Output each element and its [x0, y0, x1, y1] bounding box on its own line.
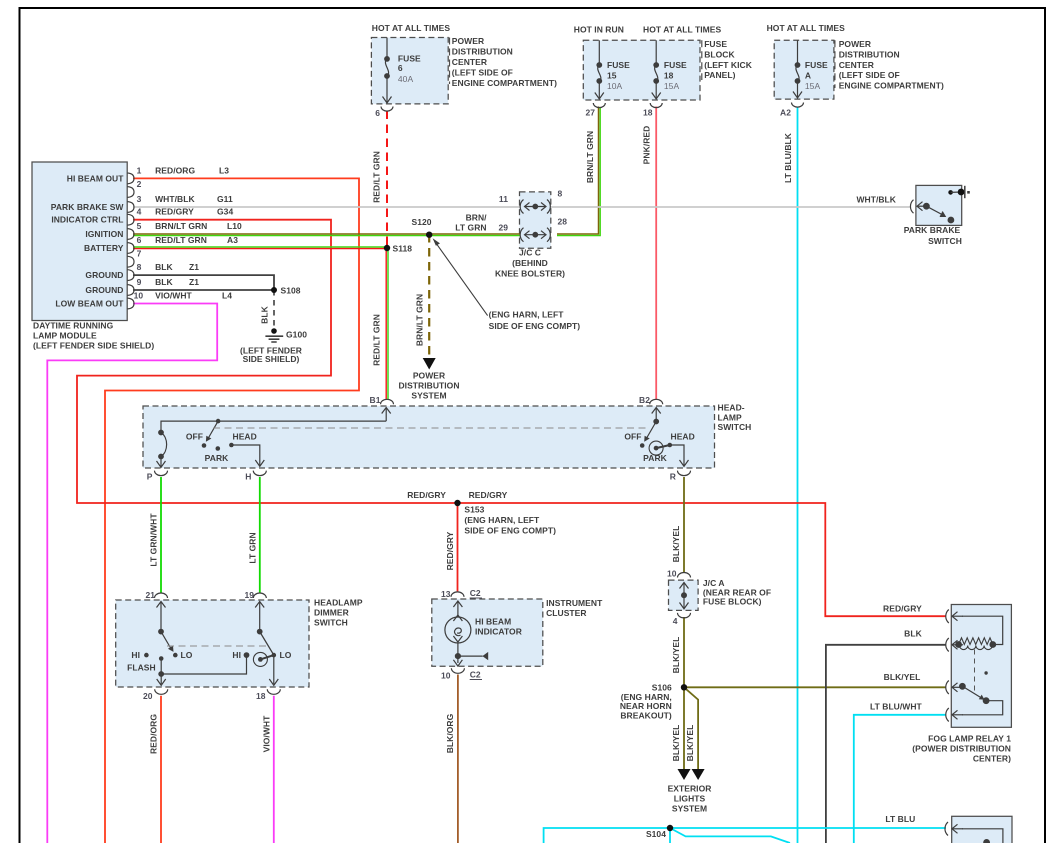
dimmer switch right lever to LO	[260, 632, 274, 656]
svg-text:6: 6	[375, 108, 380, 118]
svg-text:FUSE: FUSE	[664, 60, 687, 70]
svg-text:1: 1	[137, 165, 142, 175]
wire BLK from DRL pin 9 to S108	[133, 289, 274, 291]
svg-text:BREAKOUT): BREAKOUT)	[620, 710, 672, 720]
svg-text:ENGINE COMPARTMENT): ENGINE COMPARTMENT)	[452, 78, 557, 88]
svg-text:A3: A3	[227, 235, 238, 245]
fuse F15 element	[595, 40, 604, 99]
DRL module pin 1 connector	[128, 173, 135, 184]
headlamp dimmer switch box	[116, 600, 309, 687]
svg-text:5: 5	[137, 221, 142, 231]
svg-text:RED/LT GRN: RED/LT GRN	[372, 314, 382, 366]
dimmer switch left lever with arrowhead toward LO	[161, 632, 174, 652]
headlamp switch left pole lever with arrowhead toward OFF	[206, 421, 218, 442]
svg-text:RED/ORG: RED/ORG	[155, 165, 195, 175]
wire VIO/WHT from DRL pin 10: right, down, left, down to page bottom	[47, 304, 217, 843]
node S106	[681, 684, 687, 690]
instrument cluster connector 10	[451, 668, 464, 673]
svg-text:PARK BRAKE SW: PARK BRAKE SW	[51, 202, 125, 212]
headlamp switch left breaker arc to P	[157, 430, 167, 467]
arrow exterior lights (left)	[678, 769, 691, 780]
svg-text:7: 7	[137, 249, 142, 259]
svg-text:LT BLU: LT BLU	[885, 814, 915, 824]
svg-text:SYSTEM: SYSTEM	[411, 390, 446, 400]
svg-text:HI: HI	[131, 650, 140, 660]
svg-text:DIMMER: DIMMER	[314, 607, 349, 617]
headlamp switch connector H	[253, 471, 266, 476]
svg-text:CENTER: CENTER	[452, 57, 487, 67]
wire RED/GRY from DRL pin 4: right, down, left, down, right to S153 and on to fog lamp relay 1	[77, 220, 946, 617]
note separator fuse block	[701, 40, 703, 80]
svg-text:ENGINE COMPARTMENT): ENGINE COMPARTMENT)	[839, 81, 944, 91]
J/C A connector arc top	[678, 573, 691, 578]
note separator power distribution center (fuse A)	[834, 40, 836, 88]
svg-text:RED/GRY: RED/GRY	[155, 207, 194, 217]
fuse FA element	[793, 40, 802, 98]
park brake switch box	[916, 185, 962, 225]
svg-text:B2: B2	[639, 395, 650, 405]
park brake switch input arrow and contact	[917, 202, 929, 211]
svg-text:PNK/RED: PNK/RED	[642, 126, 652, 165]
callout arrow from ENG HARN note to S120	[435, 241, 488, 315]
fog lamp relay 2 internal wire and dot	[962, 829, 1003, 843]
svg-text:BLK/YEL: BLK/YEL	[671, 725, 681, 762]
wire LT BLU/WHT from fog lamp relay 1 left then down to page bottom	[854, 715, 946, 843]
dimmer switch connector 19	[253, 593, 266, 598]
svg-text:LT BLU/BLK: LT BLU/BLK	[783, 132, 793, 183]
svg-text:FUSE: FUSE	[398, 54, 421, 64]
svg-text:SWITCH: SWITCH	[928, 236, 962, 246]
svg-text:VIO/WHT: VIO/WHT	[155, 291, 192, 301]
svg-text:FUSE: FUSE	[805, 60, 828, 70]
svg-text:B1: B1	[370, 395, 381, 405]
DRL module pin 4 connector	[128, 214, 135, 225]
svg-text:L10: L10	[227, 221, 242, 231]
svg-text:LT GRN: LT GRN	[455, 222, 486, 232]
svg-text:FUSE: FUSE	[607, 60, 630, 70]
svg-text:CLUSTER: CLUSTER	[546, 608, 587, 618]
svg-text:FOG LAMP RELAY 1: FOG LAMP RELAY 1	[928, 734, 1011, 744]
park brake switch lever	[926, 206, 953, 223]
svg-text:RED/GRY: RED/GRY	[445, 531, 455, 570]
dimmer switch FLASH to pin 20 with junction to right HI	[157, 653, 249, 686]
svg-text:POWER: POWER	[413, 370, 445, 380]
wire LT BLU from page bottom up and right through S104 to fog lamp relay 2	[544, 828, 946, 843]
headlamp switch right contacts OFF / PARK(circled) / HEAD	[640, 443, 645, 448]
svg-text:A: A	[805, 71, 811, 81]
wire RED/LT GRN from DRL pin 6 to S118 (green+red)	[133, 246, 387, 248]
wire BRN/LT GRN from fuse 15 pin 27 down and left to J/C C pin 28 (brown+green)	[557, 107, 599, 235]
svg-text:28: 28	[558, 217, 568, 227]
wire LT GRN/WHT from headlamp switch pin P to dimmer switch pin 21	[160, 477, 162, 593]
svg-text:BRN/LT GRN: BRN/LT GRN	[414, 294, 424, 346]
svg-text:VIO/WHT: VIO/WHT	[261, 715, 271, 752]
svg-text:13: 13	[441, 589, 451, 599]
svg-text:RED/LT GRN: RED/LT GRN	[155, 235, 207, 245]
svg-text:RED/GRY: RED/GRY	[407, 490, 446, 500]
DRL module pin 7 connector	[128, 256, 135, 267]
svg-text:FLASH: FLASH	[127, 663, 156, 673]
svg-text:LT GRN: LT GRN	[247, 532, 257, 563]
node S104	[667, 825, 673, 831]
svg-text:POWER: POWER	[839, 39, 871, 49]
svg-text:6: 6	[398, 63, 403, 73]
power distribution center box (fuse A)	[774, 40, 834, 99]
svg-text:RED/GRY: RED/GRY	[469, 490, 508, 500]
svg-text:(LEFT SIDE OF: (LEFT SIDE OF	[452, 68, 513, 78]
svg-text:CENTER: CENTER	[839, 60, 874, 70]
svg-text:BRN/LT GRN: BRN/LT GRN	[585, 131, 595, 183]
svg-text:29: 29	[498, 222, 508, 232]
instrument cluster box	[432, 599, 543, 666]
J/C C junction connector box	[520, 192, 551, 248]
svg-text:LO: LO	[181, 650, 193, 660]
headlamp switch HEAD wire to R pin	[670, 445, 689, 466]
svg-text:BRN/: BRN/	[466, 213, 488, 223]
wire RED/LT GRN dashed from fuse 6 pin 6 to S118	[386, 111, 388, 249]
DRL module pin 3 connector	[128, 202, 135, 213]
fuse F18 output connector arc	[650, 103, 662, 108]
wire LT BLU/BLK from fuse A pin A2 down to page bottom	[797, 107, 799, 843]
DRL module pin 9 connector	[128, 285, 135, 296]
svg-text:LT GRN/WHT: LT GRN/WHT	[149, 513, 159, 567]
svg-text:J/C C: J/C C	[519, 248, 541, 258]
svg-text:2: 2	[137, 179, 142, 189]
DRL module pin 2 connector	[128, 187, 135, 198]
svg-text:HEADLAMP: HEADLAMP	[314, 597, 363, 607]
dimmer switch left contacts HI / LO / FLASH	[144, 653, 149, 658]
svg-text:Z1: Z1	[189, 262, 199, 272]
fuse FA output connector arc	[792, 103, 804, 108]
svg-text:INDICATOR CTRL: INDICATOR CTRL	[51, 215, 123, 225]
svg-text:BLK/YEL: BLK/YEL	[685, 725, 695, 762]
svg-text:HI BEAM OUT: HI BEAM OUT	[67, 173, 124, 183]
wire WHT/BLK from J/C C pin 8 to park brake switch	[551, 206, 910, 208]
headlamp switch left pole: B1 riser with up arrow	[382, 408, 391, 422]
svg-text:OFF: OFF	[624, 432, 641, 442]
J/C A internal double arrow with dot	[680, 583, 689, 609]
svg-text:SIDE OF ENG COMPT): SIDE OF ENG COMPT)	[489, 321, 581, 331]
DRL module pin 5 connector	[128, 229, 135, 240]
wire LT GRN from headlamp switch pin H to dimmer switch pin 19	[259, 477, 261, 593]
svg-text:RED/ORG: RED/ORG	[149, 714, 159, 754]
node S153	[454, 500, 460, 506]
svg-text:18: 18	[664, 71, 674, 81]
hi beam indicator lamp	[445, 617, 471, 643]
svg-text:S108: S108	[281, 286, 301, 296]
svg-text:BLK: BLK	[904, 629, 922, 639]
wire BLK/YEL from S106 right to fog lamp relay 1	[684, 686, 946, 688]
arrow to power distribution system	[423, 358, 436, 370]
wire BRN/LT GRN dashed from S120 down to power distribution system arrow	[428, 234, 430, 359]
svg-text:HI BEAM: HI BEAM	[475, 617, 511, 627]
svg-text:BLK/YEL: BLK/YEL	[884, 672, 921, 682]
svg-text:DISTRIBUTION: DISTRIBUTION	[452, 47, 513, 57]
headlamp switch mechanical link (dashed)	[213, 427, 649, 429]
svg-text:HEAD-: HEAD-	[718, 403, 745, 413]
wire RED/ORG from DRL pin 1: right, down, left, down to page bottom	[105, 178, 359, 843]
dimmer switch left pole riser and pivot	[157, 602, 166, 634]
svg-text:SWITCH: SWITCH	[718, 422, 752, 432]
note separator fuse 6	[449, 38, 451, 85]
svg-text:15: 15	[607, 71, 617, 81]
fog lamp relay 1 pin 3 connector (BLK/YEL)	[946, 681, 963, 695]
svg-text:(LEFT SIDE OF: (LEFT SIDE OF	[839, 70, 900, 80]
svg-text:S153: S153	[464, 505, 484, 515]
svg-text:(BEHIND: (BEHIND	[512, 258, 548, 268]
svg-text:9: 9	[137, 277, 142, 287]
fog lamp relay 2 box (clipped at page bottom)	[952, 816, 1012, 843]
headlamp switch connector P	[155, 471, 168, 476]
fuse block box (fuse 15 / fuse 18)	[583, 40, 700, 100]
svg-text:PARK: PARK	[643, 453, 667, 463]
daytime running lamp module box	[32, 162, 127, 321]
svg-text:A2: A2	[780, 108, 791, 118]
svg-text:WHT/BLK: WHT/BLK	[856, 195, 896, 205]
DRL module pin 6 connector	[128, 243, 135, 254]
svg-text:HOT IN RUN: HOT IN RUN	[574, 25, 624, 35]
svg-text:L4: L4	[222, 291, 232, 301]
headlamp switch left pole pivot dot	[216, 419, 221, 424]
node S108	[271, 287, 277, 293]
headlamp switch left pole rail from P branch to B1	[161, 421, 386, 432]
svg-text:HEAD: HEAD	[671, 432, 695, 442]
svg-text:PANEL): PANEL)	[704, 70, 735, 80]
ground G100	[265, 328, 283, 342]
svg-text:6: 6	[137, 235, 142, 245]
svg-text:Z1: Z1	[189, 277, 199, 287]
dimmer switch right LO down to pin 18	[269, 655, 278, 685]
wire VIO/WHT from dimmer pin 18 to page bottom	[273, 696, 275, 843]
fog lamp relay 1 pin 4 connector (LT BLU/WHT)	[946, 708, 963, 722]
svg-text:3: 3	[137, 194, 142, 204]
svg-text:GROUND: GROUND	[85, 270, 123, 280]
wire BLK/ORG from instrument cluster pin 10 to page bottom	[457, 675, 459, 843]
svg-text:PARK BRAKE: PARK BRAKE	[904, 225, 961, 235]
fog lamp relay 1 dashed actuator link	[974, 650, 976, 693]
svg-text:BLK: BLK	[260, 305, 270, 323]
J/C C row 1 connector (pins 11/8)	[520, 200, 550, 214]
svg-text:L3: L3	[219, 165, 229, 175]
svg-text:10: 10	[134, 291, 144, 301]
svg-text:BLK/YEL: BLK/YEL	[671, 526, 681, 563]
wire WHT/BLK from DRL pin 3 to J/C C pin 11	[133, 206, 520, 208]
svg-text:IGNITION: IGNITION	[85, 229, 123, 239]
instrument cluster connector 13	[451, 592, 464, 597]
svg-text:BLK: BLK	[155, 262, 173, 272]
headlamp switch connector R	[678, 471, 691, 476]
dimmer switch mechanical link (dashed)	[167, 645, 267, 647]
svg-text:FUSE BLOCK): FUSE BLOCK)	[703, 597, 762, 607]
DRL module pin 8 connector	[128, 270, 135, 281]
park brake switch connector arc	[910, 200, 913, 214]
svg-text:8: 8	[558, 189, 563, 199]
dimmer switch right pole riser and pivot	[255, 602, 264, 634]
fog lamp relay 1 pin 1 connector (RED/GRY)	[946, 610, 963, 624]
park brake switch ground contact	[948, 186, 970, 198]
svg-text:LO: LO	[280, 650, 292, 660]
svg-text:HOT AT ALL TIMES: HOT AT ALL TIMES	[643, 25, 722, 35]
arrow exterior lights (right)	[692, 769, 705, 780]
fog lamp relay 1 switch lever	[960, 684, 1003, 715]
svg-text:S118: S118	[393, 244, 413, 254]
fog lamp relay 1 coil circuit	[956, 616, 1003, 649]
svg-text:PARK: PARK	[205, 453, 229, 463]
svg-text:(POWER DISTRIBUTION: (POWER DISTRIBUTION	[912, 743, 1011, 753]
svg-text:10: 10	[441, 671, 451, 681]
svg-text:27: 27	[585, 108, 595, 118]
svg-text:HOT AT ALL TIMES: HOT AT ALL TIMES	[372, 23, 451, 33]
svg-text:SIDE OF ENG COMPT): SIDE OF ENG COMPT)	[464, 525, 556, 535]
svg-text:LT BLU/WHT: LT BLU/WHT	[870, 701, 923, 711]
fog lamp relay 2 pin connector (LT BLU)	[945, 822, 963, 836]
svg-text:DAYTIME RUNNING: DAYTIME RUNNING	[33, 321, 114, 331]
svg-text:(LEFT KICK: (LEFT KICK	[704, 60, 753, 70]
wire RED/LT GRN from S118 down to headlamp switch B1 (red+green)	[385, 248, 387, 400]
svg-text:P: P	[147, 472, 153, 482]
fog lamp relay 1 box	[951, 605, 1011, 728]
headlamp switch HEAD wire to H pin	[231, 445, 264, 466]
fuse F6 output connector arc	[381, 107, 393, 112]
wire BLK/YEL from headlamp switch pin R to J/C A pin 10	[683, 477, 685, 572]
power distribution center box (fuse 6)	[371, 38, 448, 104]
svg-text:INSTRUMENT: INSTRUMENT	[546, 598, 603, 608]
fog lamp relay 1 pin 2 connector (BLK)	[946, 638, 963, 652]
instrument cluster feed with up arrow	[453, 601, 462, 621]
headlamp switch left contacts OFF / PARK / HEAD	[202, 443, 207, 448]
svg-text:RED/GRY: RED/GRY	[883, 604, 922, 614]
wire BLK/YEL from J/C A pin 4 to S106	[683, 617, 685, 687]
svg-text:GROUND: GROUND	[85, 285, 123, 295]
svg-text:C2: C2	[470, 588, 481, 598]
J/C C row 2 connector (pins 29/28)	[520, 228, 550, 242]
svg-text:BLK/YEL: BLK/YEL	[671, 637, 681, 674]
svg-text:SWITCH: SWITCH	[314, 617, 348, 627]
svg-text:SYSTEM: SYSTEM	[672, 804, 707, 814]
svg-text:H: H	[245, 472, 251, 482]
svg-text:(ENG HARN, LEFT: (ENG HARN, LEFT	[489, 310, 565, 320]
svg-text:G34: G34	[217, 207, 233, 217]
svg-text:DISTRIBUTION: DISTRIBUTION	[839, 49, 900, 59]
node S118	[384, 245, 390, 251]
svg-text:HEAD: HEAD	[233, 432, 257, 442]
wire BLK from DRL pin 8: right then down to S108	[133, 275, 274, 290]
svg-text:15A: 15A	[805, 81, 821, 91]
svg-text:LAMP MODULE: LAMP MODULE	[33, 331, 97, 341]
svg-text:EXTERIOR: EXTERIOR	[668, 783, 712, 793]
headlamp switch right pole lever with arrowhead toward OFF	[644, 422, 656, 442]
svg-text:HI: HI	[232, 650, 241, 660]
svg-text:4: 4	[673, 616, 678, 626]
svg-text:(ENG HARN, LEFT: (ENG HARN, LEFT	[464, 515, 540, 525]
svg-text:18: 18	[643, 108, 653, 118]
svg-text:BLK/ORG: BLK/ORG	[445, 713, 455, 753]
svg-text:BRN/LT GRN: BRN/LT GRN	[155, 221, 207, 231]
svg-text:15A: 15A	[664, 81, 680, 91]
svg-text:RED/LT GRN: RED/LT GRN	[372, 151, 382, 203]
svg-text:G100: G100	[286, 330, 307, 340]
svg-text:20: 20	[143, 691, 153, 701]
svg-text:19: 19	[244, 590, 254, 600]
svg-text:C2: C2	[470, 670, 481, 680]
svg-text:18: 18	[256, 691, 266, 701]
wire BLK from fog lamp relay 1 left then down to page bottom	[826, 645, 946, 843]
svg-text:BLOCK: BLOCK	[704, 49, 735, 59]
svg-text:10A: 10A	[607, 81, 623, 91]
wire RED/GRY from S153 down to instrument cluster pin 13	[457, 503, 459, 591]
svg-text:LOW BEAM OUT: LOW BEAM OUT	[55, 299, 124, 309]
wire PNK/RED from fuse 18 pin 18 down to headlamp switch B2	[655, 107, 657, 401]
svg-text:8: 8	[137, 262, 142, 272]
wire BLK/YEL from S106 down to exterior lights system arrow	[683, 687, 685, 770]
svg-text:BLK: BLK	[155, 277, 173, 287]
fuse F15 output connector arc	[593, 103, 605, 108]
svg-text:S120: S120	[412, 217, 432, 227]
wire BLK dashed from S108 to ground G100	[273, 290, 275, 329]
svg-text:FUSE: FUSE	[704, 39, 727, 49]
wire BRN/LT GRN from DRL pin 5 through S120 to J/C C pin 29 (brown+green)	[133, 233, 520, 235]
svg-text:10: 10	[667, 569, 677, 579]
J/C A junction connector box	[669, 580, 699, 610]
svg-text:KNEE BOLSTER): KNEE BOLSTER)	[495, 269, 565, 279]
svg-text:4: 4	[137, 207, 142, 217]
dimmer switch connector 21	[155, 593, 168, 598]
svg-text:LIGHTS: LIGHTS	[674, 794, 706, 804]
DRL module pin 10 connector	[128, 298, 135, 309]
svg-text:CENTER): CENTER)	[973, 754, 1011, 764]
fuse F18 element	[652, 40, 661, 99]
headlamp switch box	[143, 406, 715, 468]
headlamp switch right wiper bar PARK to HEAD	[656, 445, 670, 448]
svg-text:HOT AT ALL TIMES: HOT AT ALL TIMES	[767, 23, 846, 33]
headlamp switch right pole: B2 riser with up arrow	[652, 408, 661, 424]
wire LT BLU stub below S104 to page bottom	[669, 828, 671, 843]
dimmer switch right contacts LO and circled wiper	[272, 653, 277, 658]
svg-text:11: 11	[499, 194, 508, 204]
svg-text:G11: G11	[217, 194, 233, 204]
headlamp switch connector B1	[381, 399, 394, 404]
dimmer switch connector 18	[267, 689, 280, 694]
svg-text:LAMP: LAMP	[718, 412, 743, 422]
svg-text:BATTERY: BATTERY	[84, 243, 124, 253]
svg-text:40A: 40A	[398, 74, 414, 84]
svg-text:POWER: POWER	[452, 36, 484, 46]
svg-text:WHT/BLK: WHT/BLK	[155, 194, 195, 204]
svg-text:(LEFT FENDER SIDE SHIELD): (LEFT FENDER SIDE SHIELD)	[33, 341, 154, 351]
svg-text:21: 21	[145, 590, 155, 600]
svg-text:DISTRIBUTION: DISTRIBUTION	[398, 380, 459, 390]
wire RED/ORG from dimmer pin 20 to page bottom	[160, 696, 162, 843]
headlamp switch connector B2	[650, 399, 663, 404]
instrument cluster junction dot and branch arrow	[453, 643, 488, 666]
wire LT BLU branch from S104 angling down then right then off page bottom	[670, 828, 790, 843]
fog lamp relay 1 stray contact dot	[984, 671, 987, 674]
svg-text:R: R	[670, 472, 676, 482]
svg-text:SIDE SHIELD): SIDE SHIELD)	[243, 354, 300, 364]
fuse F6 element	[383, 38, 392, 104]
dimmer switch connector 20	[155, 689, 168, 694]
svg-text:OFF: OFF	[186, 432, 203, 442]
svg-text:S104: S104	[646, 829, 666, 839]
wire BLK/YEL branch from S106 via elbow down to exterior lights system arrow	[684, 687, 698, 770]
svg-text:INDICATOR: INDICATOR	[475, 627, 522, 637]
J/C A connector arc bottom	[678, 613, 691, 618]
node S120	[426, 232, 432, 238]
dimmer switch right wiper bar to LO	[260, 655, 273, 659]
